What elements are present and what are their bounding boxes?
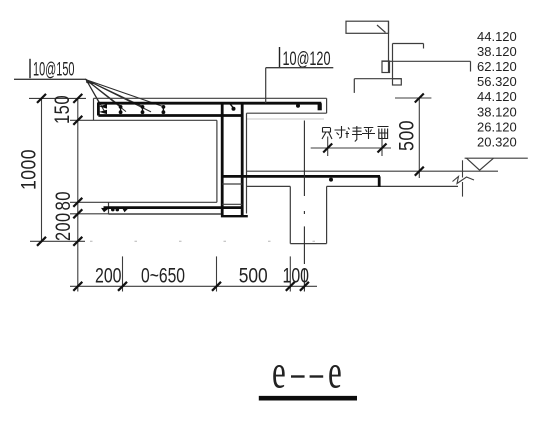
pseudo hanzi 尺寸详平面 <box>322 126 389 142</box>
bottom slab hooks and dots <box>101 208 109 212</box>
svg-text:200: 200 <box>52 213 76 242</box>
beam centerline (dash-dot) <box>303 121 305 292</box>
beam outline <box>289 186 291 243</box>
dimension extension line top-left <box>29 97 86 99</box>
svg-text:e: e <box>328 345 342 398</box>
break mark <box>462 160 464 177</box>
middle slab rebar <box>222 175 380 178</box>
step figure top right <box>346 21 471 93</box>
level symbol <box>465 157 528 159</box>
hooked bar dot in wall head <box>232 107 236 111</box>
rebar end hooks top slab <box>99 104 107 109</box>
middle floor slab top (level line) <box>247 170 499 172</box>
svg-text:10@120: 10@120 <box>283 49 331 70</box>
leader fan lines to slab bars <box>86 79 164 112</box>
svg-text:20.320: 20.320 <box>477 135 517 150</box>
extension line y241.3 <box>30 240 85 242</box>
leader drop to slab <box>265 68 267 103</box>
svg-text:150: 150 <box>51 95 75 124</box>
faint soffit line right span <box>247 118 325 120</box>
middle slab bar dot <box>329 178 333 182</box>
bottom slab outline <box>109 201 217 203</box>
rebar label 10@150 <box>29 59 31 78</box>
svg-text:26.120: 26.120 <box>477 119 517 134</box>
svg-text:e: e <box>272 345 286 398</box>
svg-text:38.120: 38.120 <box>477 44 517 59</box>
extension line at slab soffit y120 <box>70 119 94 121</box>
svg-text:44.120: 44.120 <box>477 29 517 44</box>
middle slab soffit right of beam <box>327 185 458 187</box>
extension line y202 <box>70 201 109 203</box>
wall left face <box>216 120 218 202</box>
wall right face <box>246 113 248 213</box>
top slab rebar (thick) <box>98 103 321 116</box>
dimension line 1000 (outer vertical) <box>41 98 43 241</box>
svg-text:500: 500 <box>395 120 419 151</box>
dimension 500 (vertical, right) <box>395 97 431 99</box>
svg-text:62.120: 62.120 <box>477 59 517 74</box>
joint line in wall y204.3 <box>222 203 242 205</box>
svg-text:500: 500 <box>239 263 268 287</box>
title e--e <box>272 345 342 398</box>
svg-text:56.320: 56.320 <box>477 74 517 89</box>
elevation values column <box>477 29 517 150</box>
title underline <box>259 396 357 401</box>
joint line in wall y184 <box>222 183 242 185</box>
svg-text:0~650: 0~650 <box>141 263 185 287</box>
bottom slab rebar <box>104 206 243 209</box>
svg-text:1000: 1000 <box>17 149 41 190</box>
svg-text:44.120: 44.120 <box>477 89 517 104</box>
leader underline 10@150 <box>14 78 86 80</box>
note dimension 尺寸详平面 <box>311 147 391 149</box>
bottom dimension chain <box>70 285 317 287</box>
rebar label 10@120 <box>279 47 281 68</box>
svg-text:100: 100 <box>283 263 310 287</box>
svg-text:10@150: 10@150 <box>33 60 75 81</box>
leader underline 10@120 <box>266 67 334 69</box>
extension line y213.8 <box>70 213 109 215</box>
svg-text:200: 200 <box>95 263 122 287</box>
svg-text:38.120: 38.120 <box>477 104 517 119</box>
svg-text:80: 80 <box>52 191 76 211</box>
tick marks left dims <box>37 94 82 246</box>
wall bottom bar <box>221 215 248 217</box>
faint dashed trace y241 <box>90 240 330 242</box>
bar dot right span <box>296 104 300 108</box>
wall rebar verticals <box>221 103 224 215</box>
rebar section dots with ties, top slab <box>119 105 166 114</box>
dimension line 150/80/200 (inner vertical) <box>77 98 79 291</box>
top slab outline <box>94 97 327 99</box>
middle slab soffit left of beam <box>247 185 291 187</box>
